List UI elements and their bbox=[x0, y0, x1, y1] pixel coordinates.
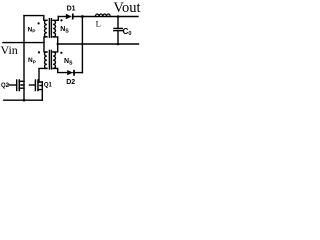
svg-text:NP: NP bbox=[28, 26, 37, 34]
svg-text:NS: NS bbox=[64, 58, 73, 66]
svg-text:Q1: Q1 bbox=[44, 83, 53, 89]
svg-text:NP: NP bbox=[28, 57, 37, 65]
svg-text:L: L bbox=[96, 19, 101, 29]
svg-text:D2: D2 bbox=[66, 79, 75, 86]
svg-text:Q2: Q2 bbox=[1, 83, 10, 89]
svg-text:Vin: Vin bbox=[1, 43, 18, 57]
svg-text:Vout: Vout bbox=[113, 0, 140, 16]
svg-text:D1: D1 bbox=[67, 6, 76, 13]
svg-text:C0: C0 bbox=[123, 27, 132, 37]
svg-text:NS: NS bbox=[60, 26, 69, 34]
